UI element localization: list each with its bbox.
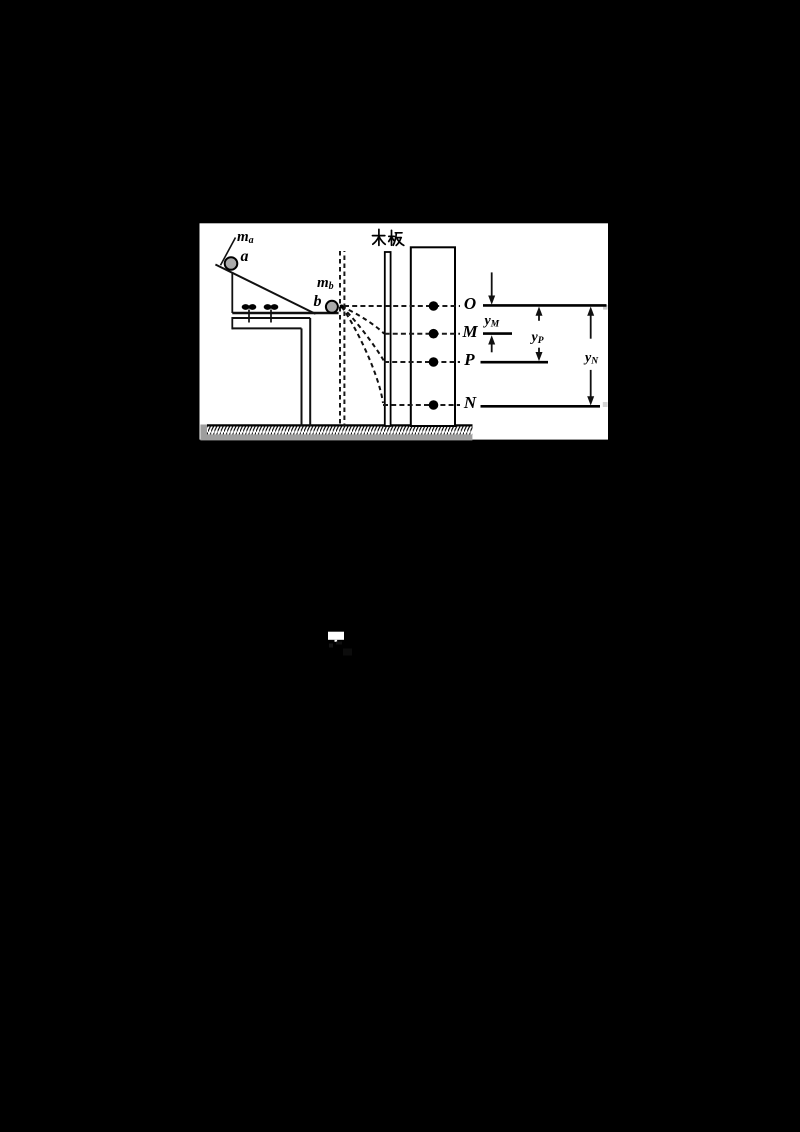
svg-text:N: N xyxy=(463,393,477,412)
svg-text:b: b xyxy=(314,293,322,310)
svg-text:a: a xyxy=(241,248,249,265)
svg-text:O: O xyxy=(464,294,476,313)
svg-text:M: M xyxy=(461,322,478,341)
svg-text:P: P xyxy=(463,350,475,369)
